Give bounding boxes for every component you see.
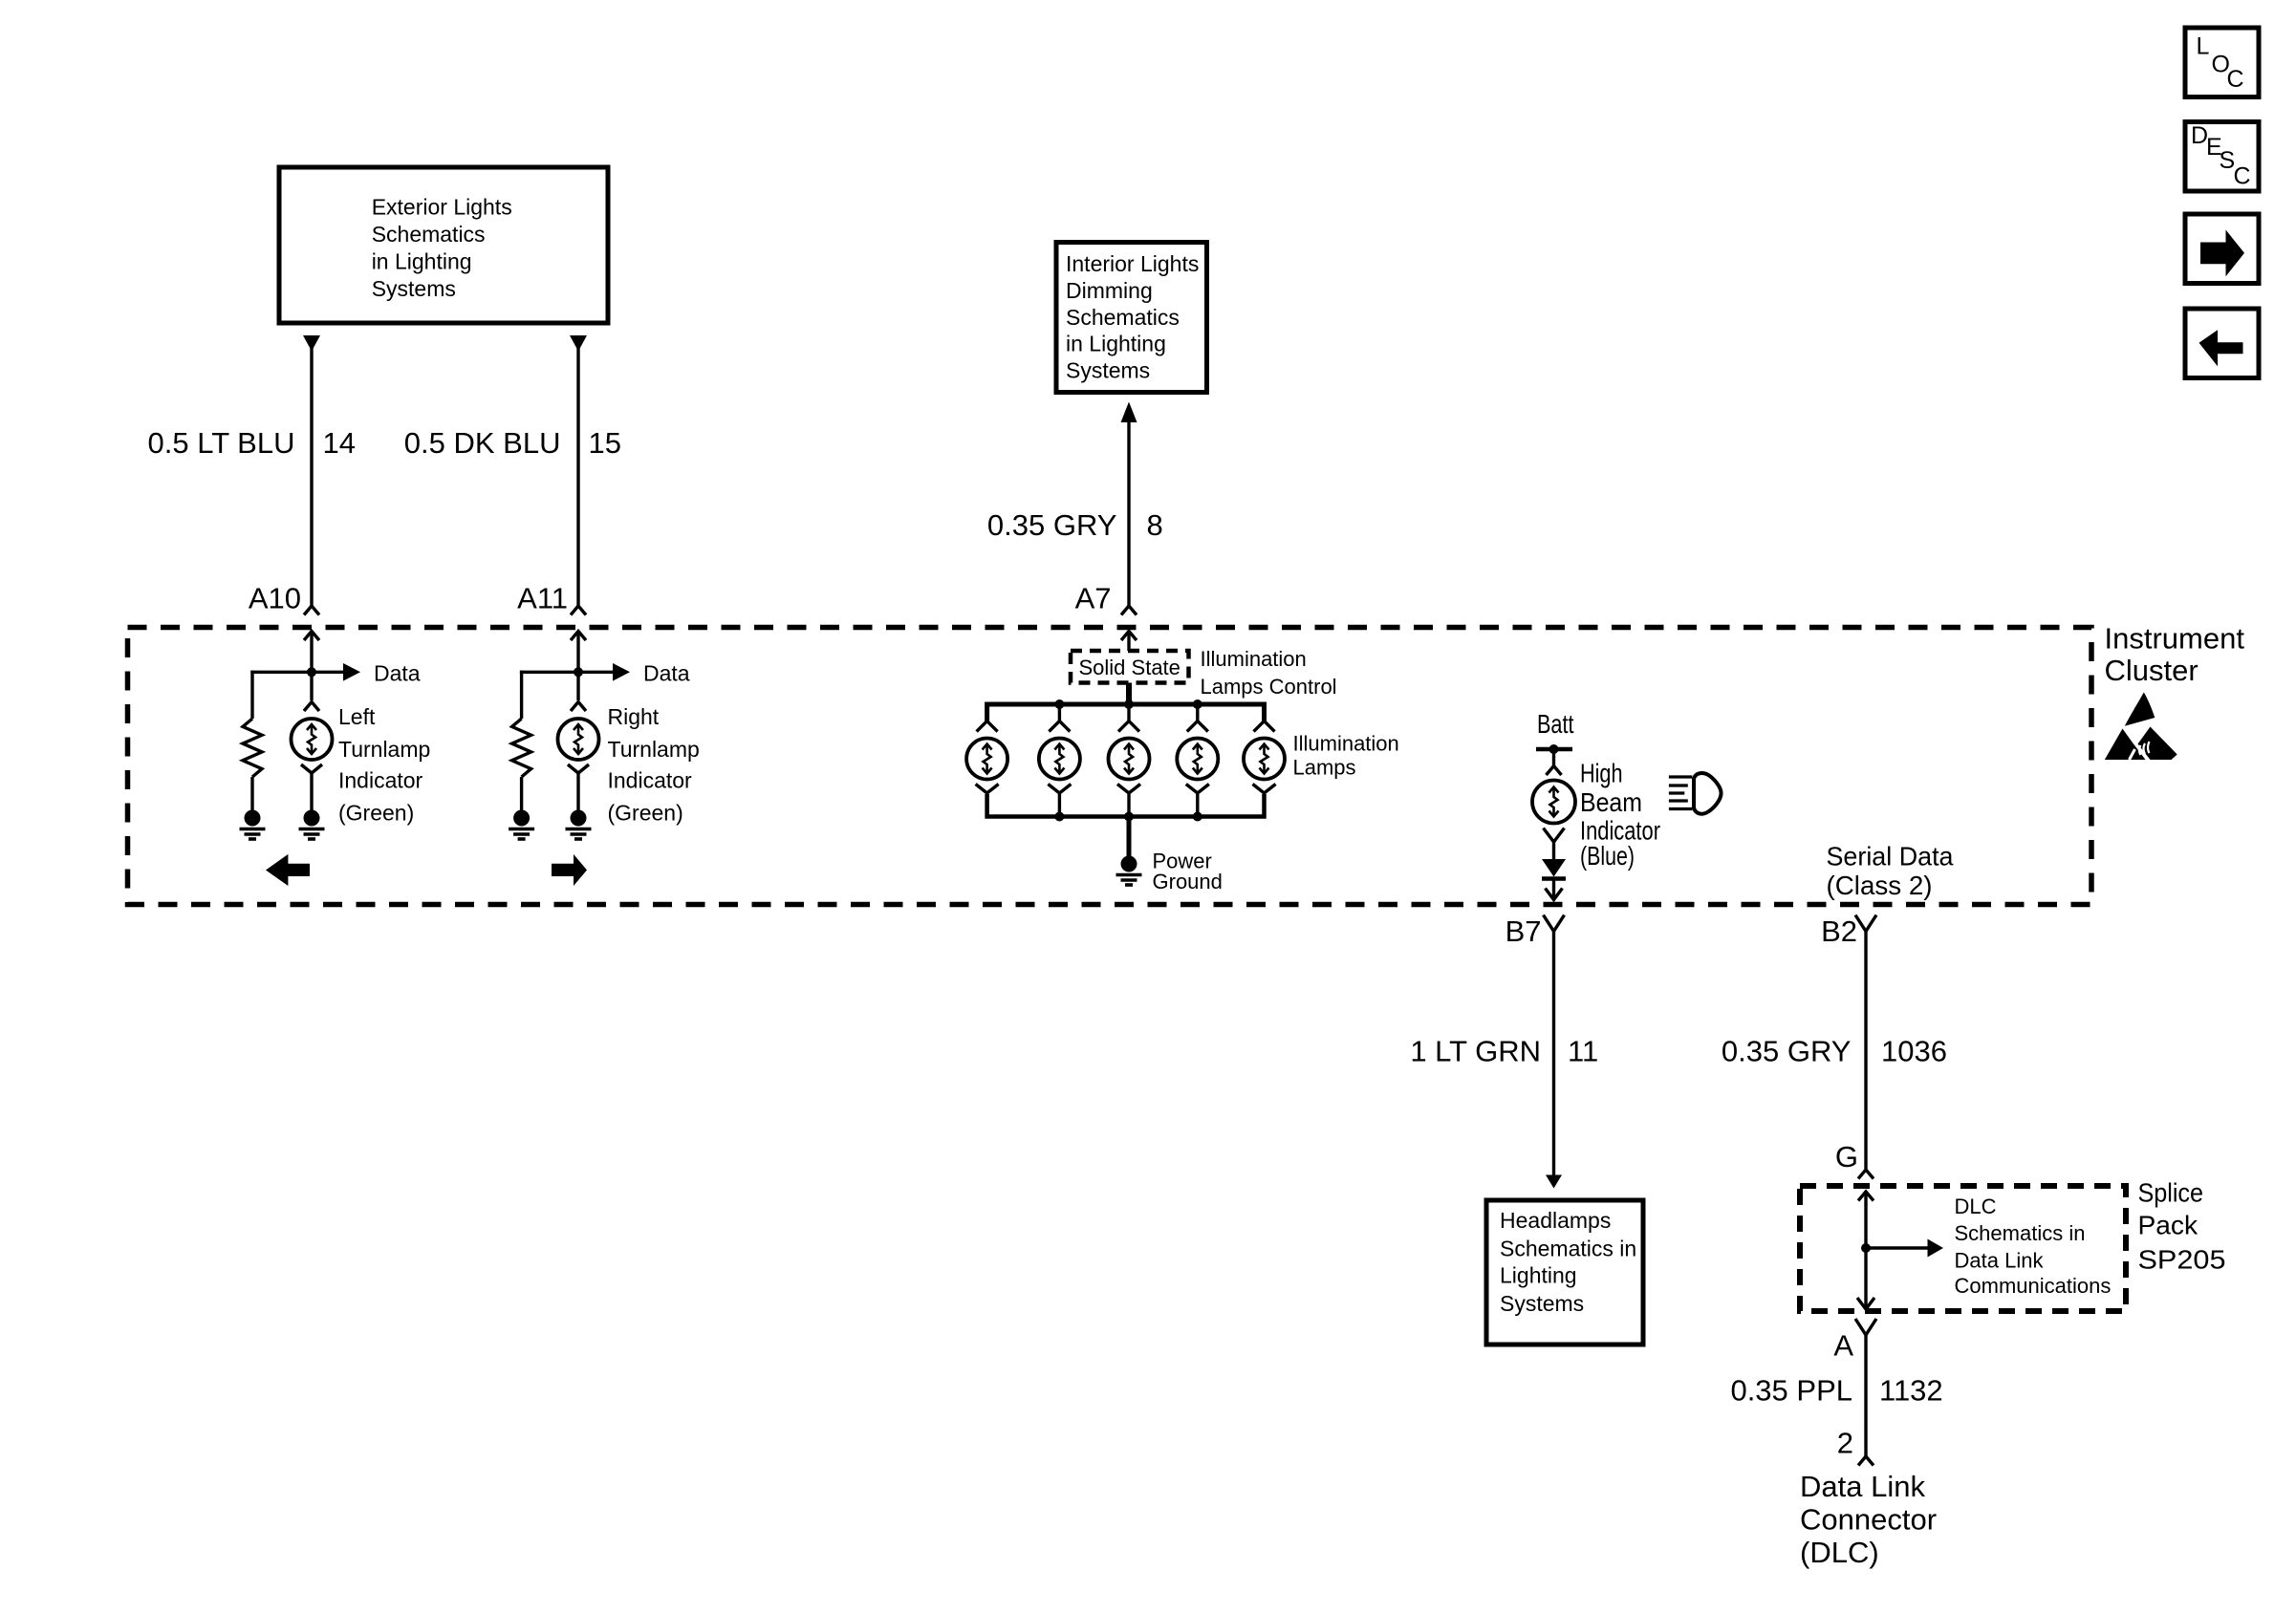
connector A7 at cluster border	[1121, 606, 1137, 640]
wire right lamp to ground	[576, 773, 579, 811]
lamp illumination 5	[1244, 739, 1285, 780]
wire into right turnlamp node	[576, 632, 579, 701]
label 0.35 PPL 1132	[1730, 1374, 1942, 1408]
svg-text:Solid State: Solid State	[1079, 656, 1180, 679]
wire 0.5 DK BLU circuit 15 (right turn signal)	[570, 335, 587, 606]
wire DLC branch	[1866, 1246, 1928, 1249]
connector below right lamp	[568, 764, 589, 773]
node left data junction	[307, 667, 316, 677]
svg-text:A7: A7	[1075, 582, 1112, 615]
icon high beam headlamp	[1669, 773, 1722, 814]
label 0.5 DK BLU 15	[404, 426, 621, 460]
wire illumination bottom bus	[987, 794, 1265, 817]
wire Data branch left	[250, 671, 343, 674]
ground right lamp	[571, 810, 587, 827]
ESD sensitivity symbol	[2105, 693, 2177, 761]
wire left resistor branch	[250, 671, 253, 719]
box Headlamps Schematics in Lighting Systems	[1486, 1200, 1643, 1345]
label 0.5 LT BLU 14	[148, 426, 356, 460]
label 0.35 GRY 1036	[1722, 1035, 1947, 1068]
svg-text:Data: Data	[643, 661, 690, 686]
svg-text:(Green): (Green)	[338, 801, 414, 826]
arrow Data left	[343, 663, 360, 681]
label Data Link Connector (DLC)	[1800, 1470, 1937, 1569]
illumination lamp 4 drop	[1187, 704, 1208, 732]
label 1 LT GRN 11	[1410, 1035, 1598, 1068]
wire 0.35 GRY circuit 8 (illumination lamps control)	[1121, 402, 1137, 607]
svg-text:Headlamps: Headlamps	[1500, 1208, 1611, 1233]
svg-text:Lamps Control: Lamps Control	[1201, 675, 1337, 699]
dashed box Splice Pack SP205	[1800, 1186, 2126, 1311]
connector below illumination lamp 2	[1048, 785, 1071, 817]
box Interior Lights Dimming Schematics in Lighting Systems	[1056, 243, 1207, 393]
svg-text:Lamps: Lamps	[1293, 756, 1356, 780]
svg-text:Ground: Ground	[1153, 870, 1223, 893]
svg-text:C: C	[2227, 66, 2244, 93]
wire solid state to bus	[1126, 683, 1132, 705]
svg-text:15: 15	[589, 426, 621, 460]
svg-text:1132: 1132	[1879, 1374, 1943, 1408]
svg-text:Connector: Connector	[1800, 1503, 1937, 1537]
lamp illumination 2	[1039, 739, 1080, 780]
svg-text:Data: Data	[374, 661, 421, 686]
connector below left lamp	[301, 764, 322, 773]
svg-text:Interior Lights: Interior Lights	[1066, 251, 1199, 276]
svg-text:14: 14	[323, 426, 356, 460]
label Instrument Cluster	[2105, 622, 2245, 688]
svg-text:0.35 PPL: 0.35 PPL	[1730, 1374, 1852, 1408]
lamp illumination 4	[1177, 739, 1218, 780]
button forward arrow	[2185, 214, 2259, 284]
connector above left lamp	[304, 702, 319, 712]
svg-text:2: 2	[1837, 1427, 1853, 1460]
svg-text:Instrument: Instrument	[2105, 622, 2245, 656]
svg-text:(Green): (Green)	[608, 801, 683, 826]
connector B2 at cluster border	[1855, 915, 1876, 932]
svg-text:Schematics: Schematics	[372, 222, 486, 247]
connector below illumination lamp 1	[976, 785, 999, 817]
label Serial Data (Class 2)	[1827, 842, 1954, 901]
connector below illumination lamp 4	[1186, 785, 1209, 817]
node bus junctions	[1054, 699, 1202, 709]
svg-text:L: L	[2197, 33, 2210, 60]
svg-text:Schematics: Schematics	[1066, 305, 1180, 330]
svg-text:B7: B7	[1505, 915, 1542, 948]
svg-text:11: 11	[1568, 1035, 1598, 1068]
svg-text:Illumination: Illumination	[1201, 647, 1307, 671]
svg-text:Splice: Splice	[2138, 1178, 2204, 1208]
svg-text:C: C	[2234, 163, 2251, 190]
illumination lamp 5 drop	[1254, 704, 1275, 732]
connector A11 at cluster border	[571, 606, 586, 640]
wire Data branch right	[520, 671, 613, 674]
icon left turn arrow	[266, 854, 310, 886]
svg-text:Schematics in: Schematics in	[1500, 1237, 1636, 1261]
connector above high beam lamp	[1547, 766, 1562, 776]
svg-text:Turnlamp: Turnlamp	[338, 737, 430, 762]
dashed box Instrument Cluster outline	[128, 628, 2092, 905]
arrow into headlamps box	[1546, 1175, 1562, 1189]
svg-text:A10: A10	[249, 582, 301, 615]
label Illumination Lamps Control	[1201, 647, 1337, 699]
resistor right turnlamp	[512, 719, 531, 777]
svg-text:Indicator: Indicator	[608, 768, 693, 793]
label Illumination Lamps	[1293, 732, 1399, 780]
svg-text:1036: 1036	[1881, 1035, 1947, 1068]
label Right Turnlamp Indicator (Green)	[608, 704, 700, 826]
diode high beam	[1542, 859, 1566, 879]
svg-text:Dimming: Dimming	[1066, 278, 1153, 303]
arrow Data right	[613, 663, 630, 681]
svg-text:Cluster: Cluster	[2105, 654, 2199, 687]
icon right turn arrow	[552, 854, 587, 886]
label Power Ground	[1153, 850, 1223, 894]
illumination lamp 1 drop	[977, 704, 998, 732]
svg-text:in Lighting: in Lighting	[1066, 332, 1166, 356]
wire diode to B7	[1552, 879, 1555, 900]
svg-text:G: G	[1835, 1140, 1858, 1173]
ground Power Ground	[1121, 856, 1137, 872]
svg-text:in Lighting: in Lighting	[372, 249, 472, 274]
label Left Turnlamp Indicator (Green)	[338, 704, 430, 826]
connector A at splice pack border	[1855, 1298, 1876, 1335]
connector DLC pin 2	[1858, 1456, 1874, 1466]
resistor left turnlamp	[243, 719, 262, 777]
wire 0.35 GRY circuit 1036 (serial data)	[1864, 932, 1867, 1171]
connector below illumination lamp 5	[1253, 785, 1276, 817]
svg-text:1 LT GRN: 1 LT GRN	[1410, 1035, 1541, 1068]
ground left lamp	[304, 810, 320, 827]
lamp High Beam Indicator (Blue)	[1532, 781, 1575, 824]
svg-text:Turnlamp: Turnlamp	[608, 737, 700, 762]
svg-text:(Class 2): (Class 2)	[1827, 871, 1933, 900]
button back arrow	[2185, 309, 2259, 378]
illumination lamp 3 drop	[1118, 704, 1139, 732]
label DLC Schematics in Data Link Communications	[1955, 1194, 2112, 1298]
lamp illumination 3	[1109, 739, 1150, 780]
svg-text:0.5 LT BLU: 0.5 LT BLU	[148, 426, 295, 460]
svg-text:Data Link: Data Link	[1955, 1249, 2045, 1273]
lamp illumination 1	[966, 739, 1007, 780]
svg-text:A: A	[1833, 1329, 1853, 1363]
svg-text:DLC: DLC	[1955, 1194, 1997, 1218]
wire into left turnlamp node	[310, 632, 313, 701]
svg-text:Systems: Systems	[1500, 1291, 1584, 1316]
battery feed terminal	[1536, 744, 1572, 766]
svg-text:0.5 DK BLU: 0.5 DK BLU	[404, 426, 561, 460]
ground right resistor	[513, 810, 530, 827]
wire through splice pack	[1864, 1192, 1867, 1309]
node splice junction SP205	[1861, 1243, 1871, 1253]
svg-text:High: High	[1580, 759, 1623, 788]
wire 1 LT GRN circuit 11 (headlamps)	[1552, 932, 1555, 1176]
button DESC	[2185, 122, 2259, 192]
lamp Right Turnlamp Indicator (Green)	[558, 719, 599, 760]
node right data junction	[574, 667, 583, 677]
arrow DLC branch	[1928, 1239, 1944, 1258]
svg-text:Batt: Batt	[1537, 709, 1574, 739]
svg-text:Right: Right	[608, 704, 660, 729]
svg-text:Systems: Systems	[1066, 358, 1150, 383]
svg-text:(DLC): (DLC)	[1800, 1536, 1879, 1569]
dashed box Solid State	[1071, 651, 1189, 683]
label 0.35 GRY 8	[987, 508, 1163, 542]
svg-text:Data Link: Data Link	[1800, 1470, 1925, 1503]
connector below illumination lamp 3	[1117, 785, 1140, 817]
svg-text:Schematics in: Schematics in	[1955, 1221, 2086, 1245]
svg-text:Serial Data: Serial Data	[1827, 842, 1954, 872]
connector below high beam lamp	[1544, 829, 1565, 843]
connector G at splice pack border	[1858, 1170, 1874, 1201]
wire left lamp to ground	[310, 773, 313, 811]
svg-text:Left: Left	[338, 704, 376, 729]
svg-text:0.35 GRY: 0.35 GRY	[1722, 1035, 1852, 1068]
illumination lamp 2 drop	[1049, 704, 1070, 732]
svg-text:B2: B2	[1821, 915, 1857, 948]
svg-text:Exterior Lights: Exterior Lights	[372, 195, 512, 220]
wire illumination top bus	[987, 704, 1265, 721]
lamp Left Turnlamp Indicator (Green)	[292, 719, 333, 760]
svg-text:Indicator: Indicator	[338, 768, 423, 793]
ground left resistor	[245, 810, 261, 827]
label Splice Pack SP205	[2138, 1178, 2226, 1275]
connector above right lamp	[571, 702, 586, 712]
svg-text:(Blue): (Blue)	[1580, 841, 1635, 871]
wire A7 to solid state box	[1127, 632, 1130, 652]
box Exterior Lights Schematics in Lighting Systems	[279, 167, 608, 323]
label High Beam Indicator (Blue)	[1580, 759, 1660, 872]
svg-text:SP205: SP205	[2138, 1245, 2226, 1275]
button LOC	[2185, 28, 2259, 97]
svg-text:Pack: Pack	[2138, 1211, 2199, 1240]
svg-text:8: 8	[1147, 508, 1163, 542]
svg-text:Communications: Communications	[1955, 1274, 2112, 1298]
svg-text:Systems: Systems	[372, 276, 456, 301]
wire resistor to ground	[250, 777, 253, 811]
svg-text:Illumination: Illumination	[1293, 732, 1399, 756]
connector B7 at cluster border	[1544, 889, 1565, 932]
svg-text:A11: A11	[517, 582, 568, 615]
node bottom bus junctions	[1054, 812, 1202, 822]
wire right resistor branch	[520, 671, 523, 719]
wire to power ground	[1127, 817, 1132, 858]
connector A10 at cluster border	[304, 606, 319, 640]
wire 0.35 PPL circuit 1132	[1864, 1335, 1867, 1456]
svg-text:Beam: Beam	[1580, 787, 1642, 817]
wire lamp to diode	[1552, 843, 1555, 860]
wire right resistor to ground	[520, 777, 523, 811]
wire 0.5 LT BLU circuit 14 (left turn signal)	[303, 335, 320, 606]
svg-text:Lighting: Lighting	[1500, 1263, 1577, 1288]
svg-text:0.35 GRY: 0.35 GRY	[987, 508, 1117, 542]
